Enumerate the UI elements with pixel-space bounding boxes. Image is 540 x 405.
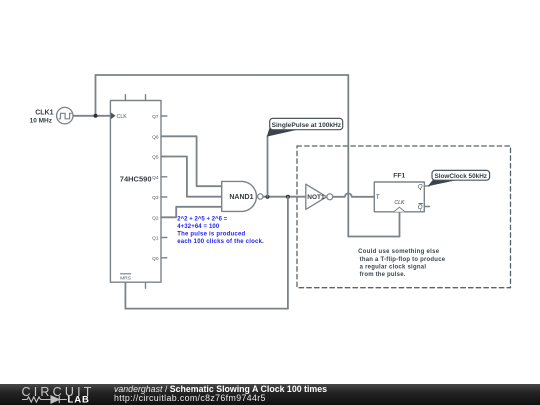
svg-text:CLK: CLK	[117, 114, 128, 120]
U1 right pin stubs Q7..Q0	[161, 116, 167, 258]
wire SinglePulse flag stem	[267, 136, 269, 197]
wire NOT1 output to FF1 T with hop	[333, 193, 374, 196]
svg-text:Q2: Q2	[152, 215, 159, 221]
svg-text:Could use something else: Could use something else	[358, 249, 440, 255]
svg-text:Q: Q	[418, 185, 423, 191]
wire CLK node up to top rail	[95, 75, 97, 116]
svg-text:10 MHz: 10 MHz	[30, 117, 53, 124]
wire feedback down	[287, 197, 289, 309]
flip-flop FF1 body	[374, 182, 424, 212]
net flag SlowClock 50kHz	[428, 170, 490, 186]
svg-text:a regular clock signal: a regular clock signal	[360, 264, 427, 270]
svg-text:NAND1: NAND1	[229, 194, 253, 201]
footer credit text	[114, 385, 327, 404]
svg-text:FF1: FF1	[393, 173, 405, 180]
svg-text:2^2 + 2^5 + 2^6 =: 2^2 + 2^5 + 2^6 =	[177, 217, 227, 223]
svg-text:Q: Q	[418, 205, 423, 211]
svg-text:LAB: LAB	[68, 395, 90, 405]
wire up into FF1 CLK pin	[399, 212, 401, 237]
svg-text:Q1: Q1	[152, 236, 159, 242]
svg-text:than a T-flip-flop to produce: than a T-flip-flop to produce	[360, 257, 446, 263]
wire CLK1 output to U1 CLK	[73, 115, 111, 117]
wire horizontal under FF1	[348, 236, 399, 238]
svg-text:The pulse is produced: The pulse is produced	[177, 231, 245, 237]
FF1 CLK edge-trigger marker	[394, 207, 405, 212]
NOT1 output bubble	[327, 194, 333, 200]
wire U1 Q6 to NAND1 input 1	[161, 136, 222, 186]
wire feedback bottom horizontal	[125, 308, 288, 310]
svg-text:Q3: Q3	[152, 195, 159, 201]
NAND1 output bubble	[258, 194, 263, 199]
CircuitLab logo	[0, 384, 110, 405]
net flag SinglePulse at 100kHz	[267, 118, 343, 136]
footer bar	[0, 384, 540, 405]
svg-text:CLK1: CLK1	[35, 110, 53, 117]
svg-text:SinglePulse at 100kHz: SinglePulse at 100kHz	[272, 122, 342, 129]
inverter NOT1	[306, 184, 327, 209]
annotation gray note	[358, 249, 446, 278]
U1 CLK edge-trigger marker	[111, 113, 116, 120]
dashed annotation box	[297, 146, 511, 288]
wire feedback up to U1 MRS pin	[124, 282, 126, 308]
U1 bottom pin stubs	[125, 282, 145, 288]
junction CLK1/U1/top-rail node	[94, 114, 98, 118]
U1 top pin stubs	[125, 95, 145, 101]
wire U1 Q2 to NAND1 input 3	[161, 207, 222, 218]
FF1 Q pin stub	[424, 185, 429, 187]
svg-text:SlowClock 50kHz: SlowClock 50kHz	[435, 173, 488, 180]
junction feedback tap	[286, 195, 290, 199]
svg-text:Q7: Q7	[152, 114, 159, 120]
svg-text:Q0: Q0	[152, 256, 159, 262]
clock source CLK1	[57, 107, 73, 123]
svg-text:each 100 clicks of the clock.: each 100 clicks of the clock.	[177, 239, 264, 245]
svg-text:NOT1: NOT1	[307, 194, 325, 201]
counter U1 74HC590 body	[110, 101, 161, 283]
gate NAND1	[222, 181, 257, 211]
svg-text:Q5: Q5	[152, 155, 159, 161]
svg-text:4+32+64 = 100: 4+32+64 = 100	[177, 224, 220, 230]
wire vertical down to FF1 clock run	[347, 75, 349, 237]
svg-text:MRS: MRS	[120, 275, 131, 281]
svg-text:74HC590: 74HC590	[120, 174, 152, 183]
svg-text:Q4: Q4	[152, 175, 159, 181]
wire U1 Q5 to NAND1 input 2	[161, 157, 222, 197]
svg-text:Q6: Q6	[152, 134, 159, 140]
wire top rail horizontal	[96, 74, 349, 76]
junction SinglePulse tap	[266, 195, 270, 199]
FF1 Qbar pin stub	[424, 206, 429, 208]
svg-text:from the pulse.: from the pulse.	[360, 272, 406, 278]
wire NAND1 output to NOT1 input	[263, 196, 306, 198]
svg-text:CLK: CLK	[394, 200, 405, 206]
annotation blue note	[177, 217, 264, 245]
